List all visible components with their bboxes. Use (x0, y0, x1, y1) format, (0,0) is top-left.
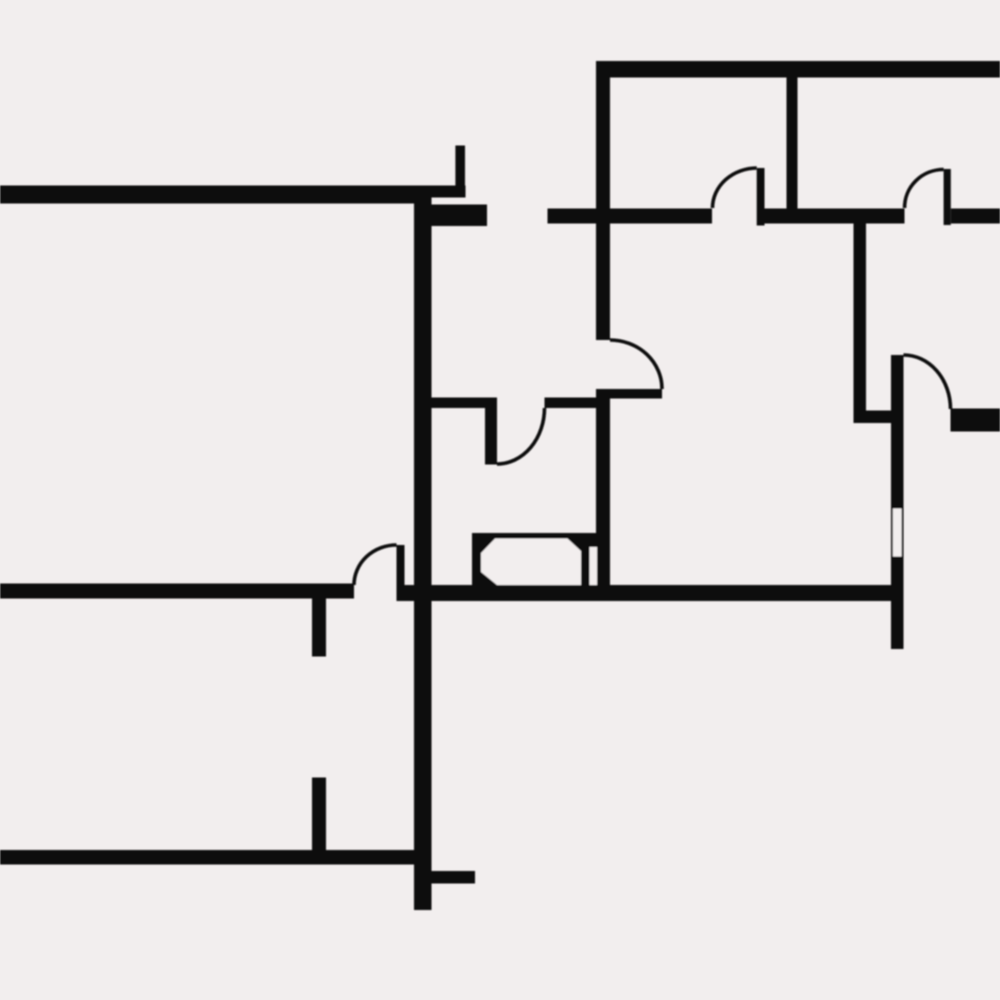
door arc A5 (354, 545, 397, 585)
wall H2 segment left (548, 209, 713, 224)
wall W3 vertical (787, 61, 798, 224)
door leaf D1 (757, 168, 765, 226)
wall W1 main vertical (414, 186, 432, 910)
door leaf D2 (944, 169, 951, 225)
wall top exterior (596, 61, 1000, 78)
wall W2 lower vertical (596, 389, 610, 601)
wall H5 bottom horizontal (0, 850, 432, 865)
wall H4 left horizontal (0, 584, 354, 599)
wall H2 segment right (951, 209, 1000, 224)
door arc A3 (610, 340, 662, 389)
wall H1 top-left horizontal (0, 186, 432, 204)
door jamb stub J1 (485, 408, 497, 465)
door arc A4 (497, 408, 545, 464)
wall H3 left (432, 398, 498, 409)
door leaf D5 horizontal (597, 389, 662, 399)
door leaf D3 (397, 545, 405, 601)
door arc A1 (713, 168, 757, 208)
wall stub H2a (432, 205, 488, 227)
wall stub B1 (312, 597, 326, 657)
door arc A2 (905, 170, 944, 209)
wall H1 right thin part (432, 186, 466, 198)
wall L vertical right (854, 223, 867, 423)
wall H4 middle horizontal (405, 585, 892, 601)
wall L horizontal right (854, 411, 892, 424)
wall stub B3 (432, 871, 476, 884)
window slot in wall W4 (893, 509, 902, 557)
door arc A6 (904, 355, 951, 409)
wall W4 right vertical (891, 355, 904, 649)
fixture counter block (472, 533, 610, 586)
wall stub S1 (455, 146, 465, 187)
fixture slot cutout (590, 547, 598, 585)
fixture inner cutout (481, 539, 581, 586)
wall right exterior thick (951, 409, 1000, 432)
wall H3 right (545, 398, 598, 409)
wall W2 upper vertical (596, 61, 610, 340)
wall stub B2 (312, 778, 326, 852)
wall H2 segment middle (765, 209, 905, 224)
